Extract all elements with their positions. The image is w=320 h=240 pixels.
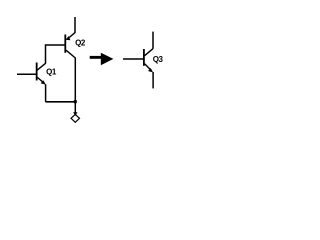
transistor Q2 emitter diagonal xyxy=(69,32,76,38)
transistor Q3 base bar xyxy=(143,49,145,66)
wire Q1 emitter down xyxy=(45,84,47,102)
wire bottom joining emitter of Q1 to collector of Q2 xyxy=(46,101,76,103)
equivalence arrow shaft xyxy=(90,56,102,59)
wire Q1 collector up and over to Q2 base xyxy=(46,45,66,63)
svg-text:Q1: Q1 xyxy=(46,68,57,77)
transistor Q3 base lead wire xyxy=(123,58,144,60)
transistor Q3 emitter diagonal xyxy=(145,64,152,71)
wire Q2 emitter top lead xyxy=(74,17,76,33)
equivalence arrow head xyxy=(101,53,114,65)
output terminal diamond xyxy=(71,114,80,122)
transistor Q3 emitter arrowhead xyxy=(148,68,153,73)
svg-text:Q2: Q2 xyxy=(75,39,86,48)
transistor Q1 emitter diagonal xyxy=(37,77,44,83)
transistor Q1 base bar xyxy=(36,63,38,81)
transistor Q3 collector diagonal xyxy=(145,49,153,56)
transistor Q2 collector diagonal xyxy=(66,50,75,58)
wire Q2 collector down to output node xyxy=(74,58,76,114)
wire Q3 emitter down xyxy=(152,72,154,88)
junction dot at bottom wire xyxy=(74,100,77,103)
transistor Q1 base lead wire xyxy=(17,73,37,75)
transistor Q1 emitter arrowhead xyxy=(41,80,46,85)
svg-text:Q3: Q3 xyxy=(153,55,164,64)
transistor Q1 collector diagonal xyxy=(37,63,45,70)
transistor Q2 emitter arrowhead (points toward bar - PNP) xyxy=(66,36,71,40)
output terminal arrowhead xyxy=(73,112,77,116)
transistor Q2 base bar xyxy=(64,35,66,53)
wire Q3 collector up xyxy=(152,32,154,49)
